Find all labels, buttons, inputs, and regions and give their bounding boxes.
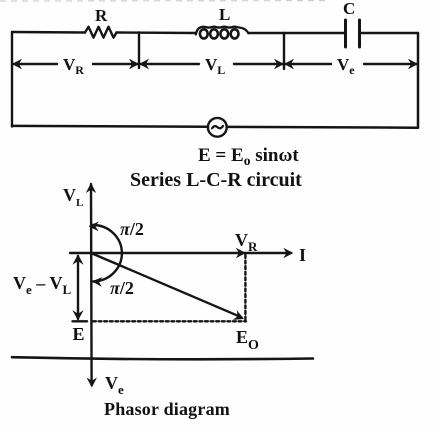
wire: VR measure line right part — [93, 63, 138, 65]
svg-text:Ve: Ve — [105, 373, 124, 397]
dashed horizontal E to E0 — [93, 320, 246, 322]
arc pi/2 — [93, 225, 122, 281]
tick at E level — [73, 320, 88, 322]
svg-text:E = Eo sinωt: E = Eo sinωt — [198, 145, 299, 168]
dashed vertical VR to E0 — [244, 255, 246, 322]
svg-text:π/2: π/2 — [120, 219, 144, 239]
svg-text:Ve: Ve — [337, 55, 355, 77]
source U1 circle — [208, 118, 227, 137]
wire: resistor to inductor — [117, 31, 197, 34]
node tick junction 1 (R-L) — [138, 33, 140, 69]
double arrow Ve-VL — [77, 256, 79, 319]
arrowhead VL right — [274, 59, 284, 69]
wire: bottom right of source — [227, 126, 418, 129]
svg-text:R: R — [95, 6, 108, 25]
separator line — [12, 357, 313, 359]
capacitor C plates — [344, 20, 347, 47]
wire: VL measure line left part — [140, 63, 199, 65]
arrowhead double up — [72, 254, 83, 265]
resistor R — [85, 27, 117, 38]
arrowhead VR right — [129, 59, 139, 69]
wire: capacitor to right corner — [360, 32, 419, 34]
svg-text:VL: VL — [205, 55, 225, 77]
svg-text:Ve – VL: Ve – VL — [13, 273, 71, 297]
vertical axis VL/Ve — [90, 184, 93, 385]
arrowhead VR on axis — [236, 248, 246, 258]
svg-text:C: C — [343, 0, 355, 18]
wire: VR measure line left part — [13, 63, 57, 65]
svg-text:L: L — [219, 5, 230, 24]
wire: VL measure line right part — [234, 63, 283, 65]
wire: inductor to capacitor — [249, 32, 346, 34]
wire: right wall of loop — [417, 33, 420, 128]
arrowhead axis down — [87, 378, 97, 388]
arrowhead Ve left — [284, 59, 294, 69]
source sine symbol — [212, 126, 223, 128]
svg-text:I: I — [299, 245, 306, 265]
inductor L — [196, 27, 249, 35]
arrowhead I axis — [283, 248, 293, 258]
arrowhead Ve right — [408, 59, 418, 69]
wire: bottom left of source — [12, 125, 208, 128]
svg-text:π/2: π/2 — [110, 278, 134, 298]
svg-text:E: E — [73, 324, 85, 344]
wire: left wall of loop — [11, 32, 13, 127]
node tick junction 2 (L-C) — [283, 33, 285, 69]
arrowhead double down — [72, 310, 83, 321]
arrowhead VL left — [139, 59, 149, 69]
svg-text:EO: EO — [236, 327, 259, 353]
vector E0 — [91, 253, 242, 317]
svg-text:VL: VL — [63, 185, 83, 209]
arrowhead arc top — [89, 222, 99, 232]
arrowhead vector E0 — [233, 310, 244, 320]
svg-text:Phasor diagram: Phasor diagram — [104, 399, 230, 419]
arrowhead axis up — [86, 183, 96, 193]
horizontal axis I — [70, 252, 291, 254]
arrowhead arc bottom — [92, 277, 103, 287]
svg-text:Series L-C-R circuit: Series L-C-R circuit — [130, 169, 302, 191]
wire: Ve measure line right part — [364, 63, 417, 65]
wire: top, left corner to resistor — [12, 31, 85, 34]
arrowhead VR left — [12, 59, 22, 69]
wire: Ve measure line left part — [285, 63, 331, 65]
svg-text:VR: VR — [63, 55, 84, 77]
